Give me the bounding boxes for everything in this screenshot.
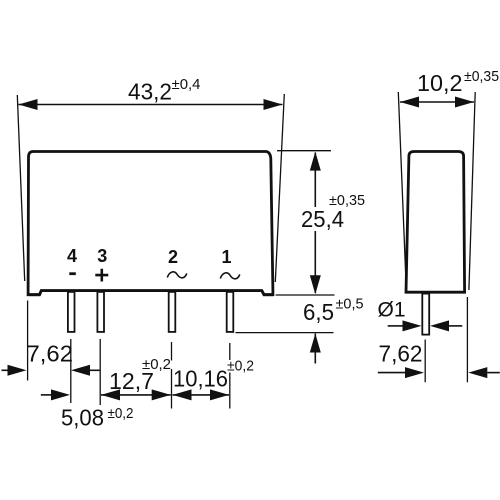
svg-text:4: 4: [67, 246, 77, 266]
extension line body left bottom: [27, 301, 29, 381]
extension line 25,4 top: [277, 150, 331, 152]
AC wave symbol pin 2: [167, 272, 187, 278]
svg-text:±0,35: ±0,35: [329, 192, 365, 209]
dimension 7,62 tail right: [90, 369, 100, 371]
dimension 10,16 line: [173, 394, 230, 396]
svg-text:6,5: 6,5: [303, 299, 334, 325]
svg-text:7,62: 7,62: [379, 340, 423, 366]
arrowhead 12,7 left: [101, 389, 120, 400]
dimension diameter tail left: [388, 325, 404, 327]
extension line 10,2 right: [469, 92, 475, 290]
extension line 10,2 left: [398, 92, 406, 290]
arrowhead 43,2 left: [19, 99, 38, 110]
dimension 10,2 line: [400, 101, 474, 103]
arrowhead 7,62 side pointing right: [405, 367, 424, 378]
extension line 6,5 bottom: [236, 332, 334, 334]
dimension diameter tail right: [449, 325, 462, 327]
svg-text:±0,2: ±0,2: [142, 356, 171, 373]
svg-text:10,2: 10,2: [417, 70, 463, 96]
svg-text:Ø1: Ø1: [378, 298, 406, 322]
arrowhead 12,7 right: [152, 389, 171, 400]
dimension 43,2 line: [19, 104, 283, 106]
dimension 43,2 extension line left: [17, 95, 24, 281]
extension line pin 2: [171, 342, 173, 361]
arrowhead 7,62 pointing right: [8, 365, 27, 376]
arrowhead diameter pointing right: [403, 320, 422, 331]
arrowhead 25,4 up: [310, 152, 321, 171]
extension line side pin center: [424, 340, 426, 383]
dimension 25,4 line lower: [314, 231, 316, 293]
arrowhead 10,2 right: [455, 97, 474, 108]
extension line 25,4 bottom: [276, 294, 335, 296]
arrowhead 6,5 up: [310, 334, 321, 353]
arrowhead 43,2 right: [264, 99, 283, 110]
dimension 12,7 line: [101, 394, 171, 396]
extension line pin 4: [70, 339, 72, 403]
extension line pin 3: [99, 339, 101, 405]
svg-text:±0,2: ±0,2: [108, 405, 134, 422]
svg-text:3: 3: [97, 246, 107, 266]
pin 1: [227, 292, 234, 332]
svg-text:43,2: 43,2: [128, 79, 172, 105]
svg-text:1: 1: [221, 247, 231, 267]
pin 2: [169, 292, 176, 332]
body front bottom edge detail: [28, 291, 273, 295]
svg-text:±0,35: ±0,35: [464, 68, 499, 85]
arrowhead 5,08 pointing right: [51, 389, 70, 400]
body front view outline: [28, 152, 273, 295]
minus symbol: [69, 272, 76, 275]
arrowhead 25,4 down: [310, 275, 321, 294]
dimension 7,62 line left part: [2, 369, 9, 371]
pin 4: [68, 292, 75, 332]
extension line pin 1: [229, 343, 231, 360]
dimension 25,4 line upper: [314, 153, 316, 208]
arrowhead 10,16 right: [210, 389, 229, 400]
AC wave symbol pin 1: [220, 273, 240, 279]
dimension 7,62 side tail left: [378, 372, 406, 374]
svg-text:±0,4: ±0,4: [172, 76, 201, 93]
plus symbol: [95, 269, 108, 282]
arrowhead 7,62 side pointing left: [468, 367, 487, 378]
pin 3: [97, 292, 104, 332]
side pin: [422, 294, 429, 335]
svg-text:±0,5: ±0,5: [336, 296, 364, 313]
arrowhead 7,62 pointing left at pin4: [71, 365, 90, 376]
arrowhead diameter pointing left: [430, 320, 449, 331]
svg-text:10,16: 10,16: [173, 366, 228, 392]
svg-text:25,4: 25,4: [301, 206, 344, 232]
extension line side right: [466, 297, 468, 382]
dimension 43,2 extension line right: [275, 94, 284, 282]
body side view outline: [406, 152, 465, 293]
dimension 5,08 tail: [41, 394, 51, 396]
svg-text:2: 2: [168, 247, 178, 267]
dimension 7,62 side tail right: [487, 372, 500, 374]
svg-text:5,08: 5,08: [61, 405, 104, 431]
svg-text:±0,2: ±0,2: [227, 358, 254, 375]
svg-text:7,62: 7,62: [27, 340, 74, 366]
dimension 6,5 tail: [314, 334, 316, 364]
arrowhead 10,2 left: [400, 97, 419, 108]
arrowhead 10,16 left: [173, 389, 192, 400]
